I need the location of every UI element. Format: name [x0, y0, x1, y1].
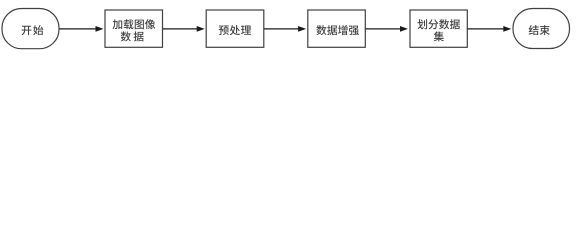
wire: arrow 2 shaft [163, 28, 198, 30]
process box: 加载图像数据 [105, 10, 163, 47]
label: 结束 [529, 25, 550, 35]
label: 预处理 [219, 25, 251, 35]
arrowhead 1 [96, 26, 104, 32]
flowchart background [0, 0, 576, 58]
arrowhead 4 [400, 26, 408, 32]
arrowhead 3 [298, 26, 306, 32]
arrowhead 2 [197, 26, 205, 32]
process box: 数据增强 [308, 10, 366, 47]
label: 数据增强 [316, 25, 359, 35]
wire: arrow 4 shaft [366, 28, 402, 30]
process box: 预处理 [206, 10, 264, 47]
wire: arrow 1 shaft [60, 28, 98, 30]
arrowhead 5 [503, 26, 511, 32]
terminator shape: 开始 (start) [2, 9, 59, 49]
label: 开始 [22, 25, 44, 35]
process box: 划分数据集 [410, 10, 467, 47]
label line 2: 数据 [121, 31, 144, 41]
terminator shape: 结束 (end) [513, 9, 570, 49]
label line 1: 划分数据 [417, 19, 459, 29]
wire: arrow 5 shaft [468, 28, 505, 30]
wire: arrow 3 shaft [264, 28, 300, 30]
label line 1: 加载图像 [113, 19, 156, 29]
label line 2: 集 [434, 31, 444, 41]
